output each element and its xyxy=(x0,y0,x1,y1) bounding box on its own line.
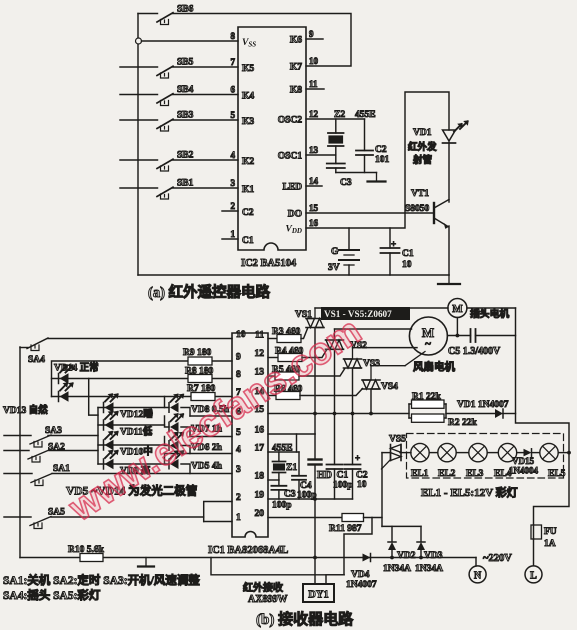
wire osc ground run xyxy=(336,172,377,174)
svg-text:17: 17 xyxy=(255,444,265,454)
svg-text:M: M xyxy=(452,303,463,315)
wire pin2 row xyxy=(204,502,232,522)
svg-text:SB4: SB4 xyxy=(177,85,194,95)
transistor VT1 S8050 xyxy=(405,189,449,229)
diode VD11 LED xyxy=(104,411,153,438)
svg-text:VD11低: VD11低 xyxy=(120,426,153,438)
svg-text:IC2 BA5104: IC2 BA5104 xyxy=(241,258,297,269)
wire pin10 row xyxy=(48,338,232,340)
svg-text:100p: 100p xyxy=(333,481,353,491)
svg-text:C1: C1 xyxy=(337,471,349,481)
op-amp U1 IC2 BA5104 body xyxy=(238,27,306,269)
wire pin2 stub xyxy=(222,210,238,212)
resistor R1 22k xyxy=(409,392,446,422)
wire pin3 row xyxy=(52,473,232,475)
label LED note xyxy=(66,484,198,498)
terminal N xyxy=(469,566,486,583)
svg-text:C3: C3 xyxy=(340,178,352,188)
switch SB2 xyxy=(157,151,194,172)
svg-text:4: 4 xyxy=(236,445,241,455)
resistor R7 xyxy=(187,384,215,401)
wire SB4 to IC xyxy=(173,94,239,96)
svg-text:C1: C1 xyxy=(402,249,414,259)
switch SB5 xyxy=(157,58,194,79)
svg-text:C2: C2 xyxy=(375,145,387,155)
svg-text:1N4004: 1N4004 xyxy=(509,466,538,476)
wire SB4 left segment xyxy=(120,94,158,96)
svg-text:DY1: DY1 xyxy=(308,590,328,601)
svg-text:+: + xyxy=(355,453,360,463)
wire pin14 stub xyxy=(306,185,322,187)
svg-text:VDD: VDD xyxy=(286,225,302,236)
IC1 right pin numbers xyxy=(255,331,265,520)
caption (a) xyxy=(148,283,271,301)
svg-text:R7 180: R7 180 xyxy=(187,384,215,394)
svg-text:风扇电机: 风扇电机 xyxy=(413,360,455,373)
svg-text:1A: 1A xyxy=(544,539,556,549)
wire rail to N xyxy=(475,558,477,567)
triac VS5 xyxy=(382,435,407,470)
svg-text:SB3: SB3 xyxy=(177,111,194,121)
wire motor to C5 xyxy=(447,335,470,337)
switch SB4 xyxy=(157,85,194,106)
wire SA3 row xyxy=(48,435,98,437)
svg-text:IC1 BA82068A4L: IC1 BA82068A4L xyxy=(208,545,288,556)
svg-text:K7: K7 xyxy=(290,63,302,73)
motor M fan xyxy=(409,317,455,373)
wire pin12 OSC2 xyxy=(306,118,365,120)
svg-text:N: N xyxy=(474,571,482,582)
resistor R11 987 xyxy=(329,514,364,535)
svg-text:K2: K2 xyxy=(242,157,254,167)
svg-text:SB5: SB5 xyxy=(177,58,194,68)
resistor R6 xyxy=(274,385,302,400)
capacitor C4 100p xyxy=(292,452,317,501)
junction p15 b xyxy=(333,412,337,416)
svg-text:9: 9 xyxy=(309,29,314,39)
wire R5 to VS3 gate xyxy=(299,369,345,376)
label 1N34A pair xyxy=(383,564,443,574)
wire pin4 row xyxy=(165,453,233,455)
svg-text:~: ~ xyxy=(425,338,431,350)
wire pin20 row xyxy=(268,517,342,519)
svg-text:R3 460: R3 460 xyxy=(272,327,300,337)
triac VS3 xyxy=(344,348,381,369)
capacitor C1 (a) 10 xyxy=(381,228,414,275)
switch SA5 xyxy=(4,508,65,529)
svg-text:6: 6 xyxy=(231,85,236,95)
diode VD13 LED xyxy=(3,382,74,416)
svg-text:SA5: SA5 xyxy=(48,508,65,518)
diode VD3 1N34A xyxy=(417,542,443,561)
op-amp U2 IC1 BA82068A4L body xyxy=(208,333,288,556)
svg-text:SA4: SA4 xyxy=(28,355,45,365)
diode VD7 LED xyxy=(169,413,223,434)
junction p15 a xyxy=(313,412,317,416)
svg-text:VD3: VD3 xyxy=(424,551,443,561)
label EL note xyxy=(421,485,518,499)
capacitor C3 (a) xyxy=(327,155,352,188)
svg-text:R2 22k: R2 22k xyxy=(448,418,477,428)
wire VS4 bottom xyxy=(370,389,372,414)
triac VS1 xyxy=(306,308,324,328)
svg-text:1: 1 xyxy=(236,513,241,523)
wire pin8 row xyxy=(52,378,233,380)
switch SA2 xyxy=(4,443,65,463)
svg-text:11: 11 xyxy=(309,79,318,89)
svg-text:SA2: SA2 xyxy=(48,443,65,453)
svg-text:18: 18 xyxy=(255,472,265,482)
svg-text:(a) 红外遥控器电路: (a) 红外遥控器电路 xyxy=(148,283,271,301)
wire R6 to VS4 gate xyxy=(300,389,363,396)
svg-text:4: 4 xyxy=(231,150,236,160)
wire bottom rail (b) xyxy=(20,557,476,559)
IC2 right pin labels xyxy=(278,29,319,235)
label 220V xyxy=(483,553,512,564)
svg-text:插头电机: 插头电机 xyxy=(470,307,509,320)
wire VD11 row xyxy=(98,424,165,426)
wire VD1 to collector xyxy=(448,143,450,202)
svg-text:HD: HD xyxy=(317,470,332,481)
svg-text:2: 2 xyxy=(231,201,236,211)
wire lamp links xyxy=(429,452,569,454)
svg-text:3: 3 xyxy=(236,465,241,475)
resistor R3 xyxy=(272,327,301,343)
svg-text:7: 7 xyxy=(231,57,236,67)
svg-text:SA1:关机 SA2:定时 SA3:开机/风速调整: SA1:关机 SA2:定时 SA3:开机/风速调整 xyxy=(3,573,200,587)
wire fuse to L xyxy=(533,539,535,566)
svg-text:EL4: EL4 xyxy=(494,469,512,479)
resistor R2 22k label xyxy=(448,418,477,428)
junction HD rail xyxy=(313,556,317,560)
wire junction B xyxy=(89,379,98,416)
capacitor C5 xyxy=(448,329,501,357)
svg-text:红外发: 红外发 xyxy=(408,141,437,153)
svg-text:13: 13 xyxy=(309,145,319,155)
fuse FU 1A xyxy=(531,525,557,549)
wire VS3 bottom xyxy=(352,368,354,414)
diode VD1b 1N4007 xyxy=(457,400,509,418)
junction p15 d xyxy=(369,412,373,416)
svg-text:14: 14 xyxy=(309,176,319,186)
node Vss junction xyxy=(136,38,142,44)
wire rail A left xyxy=(19,347,21,558)
wire pin18 row xyxy=(268,479,279,481)
wire SB6 left segment xyxy=(138,13,158,15)
wire rail C xyxy=(97,408,99,465)
wire C5 to right rail xyxy=(476,335,516,337)
wire SB6 to K7 corner xyxy=(173,14,352,67)
switch SA4 xyxy=(20,338,48,365)
wire VD6 step xyxy=(165,437,191,454)
svg-text:DO: DO xyxy=(288,210,302,220)
wire R4 to VS2 gate xyxy=(302,350,327,358)
triac VS4 xyxy=(362,366,398,392)
svg-text:15: 15 xyxy=(309,203,319,213)
svg-text:VD14 正常: VD14 正常 xyxy=(54,362,99,374)
svg-text:R9 180: R9 180 xyxy=(183,348,211,358)
svg-text:R11 987: R11 987 xyxy=(329,524,362,534)
wire pin1 stub xyxy=(222,238,238,240)
svg-text:L: L xyxy=(530,571,537,582)
wire VS5 to lamps xyxy=(400,452,411,454)
diode VD9 LED xyxy=(104,450,151,477)
ground osc xyxy=(368,173,386,182)
svg-text:10: 10 xyxy=(236,330,246,340)
wire pin11 stub xyxy=(306,88,324,90)
wire pin7 row xyxy=(52,396,233,398)
svg-text:K4: K4 xyxy=(242,92,254,102)
svg-text:455E: 455E xyxy=(355,110,376,120)
battery G 3V xyxy=(328,228,359,275)
svg-text:R1 22k: R1 22k xyxy=(412,392,441,402)
svg-text:VD5 4h: VD5 4h xyxy=(191,462,223,472)
wire SB5 to IC xyxy=(173,66,239,68)
svg-text:10: 10 xyxy=(402,260,412,270)
wire rail to DY1 feed xyxy=(211,558,344,575)
wire R11 right net xyxy=(364,453,383,518)
junction p15 c xyxy=(351,412,355,416)
wire pin17 row xyxy=(268,434,299,452)
svg-text:C3: C3 xyxy=(284,490,296,500)
svg-text:12: 12 xyxy=(309,109,319,119)
svg-text:OSC1: OSC1 xyxy=(278,152,303,162)
wire R11 step to DY1 xyxy=(326,518,372,585)
wire VDD rail xyxy=(306,92,449,228)
svg-text:2: 2 xyxy=(236,493,241,503)
switch SA3 xyxy=(4,426,62,447)
diode VD12 LED xyxy=(104,393,154,420)
wire SB1 left segment xyxy=(120,187,158,189)
svg-text:VD12睡: VD12睡 xyxy=(120,408,153,420)
lamp labels xyxy=(411,469,566,479)
wire VD8 step xyxy=(165,397,191,417)
svg-text:SA1: SA1 xyxy=(53,464,70,474)
wire pin row R3 xyxy=(268,338,277,340)
svg-text:C5 1.3/400V: C5 1.3/400V xyxy=(448,346,501,357)
wire pin row R4 xyxy=(268,357,278,359)
svg-text:~220V: ~220V xyxy=(483,553,512,564)
svg-text:C4: C4 xyxy=(300,481,312,491)
wire pin13 OSC1 xyxy=(306,154,336,156)
diode VD2 1N34A xyxy=(388,542,416,561)
svg-text:R10 5.6k: R10 5.6k xyxy=(68,545,105,555)
wire pin6 row xyxy=(190,415,232,417)
wire VS2 bottom xyxy=(334,349,336,413)
label triac strip xyxy=(321,307,410,320)
wire VD12 row xyxy=(98,407,165,409)
svg-text:3: 3 xyxy=(231,178,236,188)
capacitor C2 (a) 101 xyxy=(356,119,390,173)
svg-text:455E: 455E xyxy=(272,444,293,454)
wire SB1 to IC xyxy=(173,187,239,189)
svg-text:R8 180: R8 180 xyxy=(185,367,213,377)
diode VD1 infrared LED xyxy=(408,120,469,166)
ground bottom xyxy=(138,558,154,567)
wire bottom rail (a) xyxy=(138,274,449,276)
wire small motor lead xyxy=(456,318,458,336)
svg-text:AX899W: AX899W xyxy=(248,594,287,605)
resistor R10 5.6k xyxy=(68,545,105,562)
ground emitter xyxy=(438,275,460,284)
wire top rail xyxy=(315,307,516,309)
watermark xyxy=(61,310,369,530)
svg-text:8: 8 xyxy=(231,31,236,41)
wire VS1 bottom xyxy=(314,328,316,435)
wire pin16 row xyxy=(268,433,315,435)
svg-text:SA4:摇头 SA5:彩灯: SA4:摇头 SA5:彩灯 xyxy=(3,588,101,602)
svg-text:Z2: Z2 xyxy=(334,110,345,120)
capacitor HD xyxy=(309,434,333,499)
svg-text:Z1: Z1 xyxy=(286,463,297,473)
lamp box dashed xyxy=(407,434,564,479)
svg-text:19: 19 xyxy=(255,491,265,501)
wire SA2 row xyxy=(49,450,98,452)
svg-text:101: 101 xyxy=(375,155,390,165)
wire pin1 row xyxy=(204,521,232,523)
caption (b) xyxy=(256,610,354,628)
svg-text:EL2: EL2 xyxy=(438,469,456,479)
wire pin5 row xyxy=(190,436,232,438)
svg-text:1N4007: 1N4007 xyxy=(346,580,377,590)
diode VD14 LED xyxy=(54,362,99,384)
wire SB2 left segment xyxy=(120,159,158,161)
label SA note1 xyxy=(3,573,200,587)
svg-text:VT1: VT1 xyxy=(411,189,429,199)
terminal L xyxy=(525,566,542,583)
svg-text:VD15: VD15 xyxy=(512,456,534,466)
switch SB6 xyxy=(157,5,194,25)
svg-text:16: 16 xyxy=(309,218,319,228)
wire SA5 row xyxy=(51,516,204,518)
resistor R9 xyxy=(183,348,212,365)
wire emitter down xyxy=(448,226,450,275)
IC1 left pin numbers xyxy=(236,330,246,523)
svg-text:K5: K5 xyxy=(242,64,254,74)
wire pin9 stub xyxy=(306,38,323,40)
junction small motor xyxy=(456,334,460,338)
label SA note2 xyxy=(3,588,101,602)
svg-text:K3: K3 xyxy=(242,117,254,127)
svg-text:FU: FU xyxy=(544,527,557,537)
svg-text:S8050: S8050 xyxy=(405,204,430,214)
wire SB3 to IC xyxy=(173,119,239,121)
svg-text:9: 9 xyxy=(236,353,241,363)
wire VS2 top to motor xyxy=(335,328,412,330)
svg-text:K8: K8 xyxy=(290,86,302,96)
wire pin row R5 xyxy=(268,375,275,377)
label VS1 xyxy=(295,310,312,320)
wire VD2 VD3 bottoms xyxy=(390,550,423,559)
wire R12 to VD1 xyxy=(446,413,495,415)
wire SB3 left segment xyxy=(120,119,158,121)
wire pin15 row xyxy=(268,413,409,415)
svg-text:EL1 - EL5:12V 彩灯: EL1 - EL5:12V 彩灯 xyxy=(421,485,518,499)
motor M oscillating xyxy=(448,299,509,321)
svg-text:100p: 100p xyxy=(272,501,292,511)
IC2 left pin labels xyxy=(231,31,257,246)
svg-text:K6: K6 xyxy=(290,36,302,46)
svg-text:C1: C1 xyxy=(242,236,254,246)
svg-text:G: G xyxy=(331,247,339,257)
svg-text:EL3: EL3 xyxy=(466,469,484,479)
svg-text:10: 10 xyxy=(309,56,319,66)
resistor R8 xyxy=(185,367,213,383)
wire VD7 step xyxy=(165,416,191,437)
svg-text:SB1: SB1 xyxy=(177,179,194,189)
lamps EL1-EL5 xyxy=(411,443,558,461)
wire pin9 row xyxy=(52,361,233,397)
diode VD10 LED xyxy=(104,431,153,458)
junction p19 HD xyxy=(313,497,317,501)
svg-text:VD13 自然: VD13 自然 xyxy=(3,404,48,416)
wire SB2 to IC xyxy=(173,159,239,161)
svg-text:EL5: EL5 xyxy=(548,469,566,479)
svg-text:1N34A: 1N34A xyxy=(415,564,443,574)
label receiver xyxy=(243,581,287,605)
wire VS4 top to motor xyxy=(371,352,425,366)
svg-text:C2: C2 xyxy=(356,471,368,481)
label 455E b xyxy=(272,444,293,454)
svg-text:16: 16 xyxy=(255,426,265,436)
diode VD4 1N4007 xyxy=(346,554,377,591)
svg-text:+: + xyxy=(391,239,396,249)
wire R3 to VS1 gate xyxy=(301,329,308,339)
svg-text:VD4: VD4 xyxy=(351,570,370,580)
capacitor C2b 10 xyxy=(345,414,368,500)
svg-text:3V: 3V xyxy=(328,263,340,273)
svg-text:VSS: VSS xyxy=(242,38,256,49)
svg-text:1: 1 xyxy=(231,229,236,239)
diode VD15 1N4004 xyxy=(509,449,538,476)
svg-text:VD1 1N4007: VD1 1N4007 xyxy=(457,400,509,410)
wire DO to base xyxy=(306,212,434,214)
svg-text:VD2: VD2 xyxy=(397,551,416,561)
switch SA1 xyxy=(4,464,70,486)
wire VS3 top to motor xyxy=(353,347,418,349)
wire Vss pin8 xyxy=(142,40,239,42)
switch SB3 xyxy=(157,111,194,132)
svg-text:1N34A: 1N34A xyxy=(383,564,411,574)
svg-text:SA3: SA3 xyxy=(45,426,62,436)
svg-text:12: 12 xyxy=(255,349,265,359)
wire VD1 to rail xyxy=(503,413,516,415)
svg-text:(b) 接收器电路: (b) 接收器电路 xyxy=(256,610,354,628)
svg-text:5: 5 xyxy=(231,110,236,120)
diode VD6 LED xyxy=(169,432,223,453)
svg-text:SB2: SB2 xyxy=(177,151,194,161)
svg-text:10: 10 xyxy=(357,480,367,490)
junction lamp rail xyxy=(567,451,571,455)
capacitor C1b 100p xyxy=(327,414,353,500)
wire pin19 row xyxy=(268,498,353,500)
svg-text:OSC2: OSC2 xyxy=(278,116,303,126)
wire pin row R6 xyxy=(268,395,276,397)
wire SB5 left segment xyxy=(120,66,158,68)
triac VS2 xyxy=(326,329,368,351)
svg-text:LED: LED xyxy=(282,183,302,193)
svg-text:射管: 射管 xyxy=(412,154,433,166)
resistor R5 xyxy=(272,365,300,380)
capacitor C3b 100p xyxy=(271,480,295,511)
power module DY1 xyxy=(303,584,334,602)
wire VD10 row xyxy=(98,444,165,446)
wire HD down to rail xyxy=(314,499,316,558)
svg-text:C2: C2 xyxy=(242,208,254,218)
svg-text:VS5: VS5 xyxy=(389,435,406,445)
wire VD5 step xyxy=(165,454,191,474)
svg-text:11: 11 xyxy=(255,331,264,341)
